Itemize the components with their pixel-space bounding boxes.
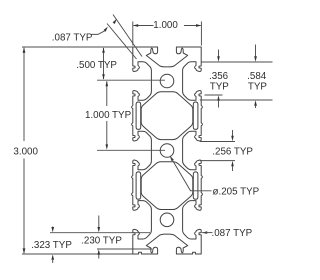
extension line top face (22, 46, 133, 48)
extension line bottom face (22, 253, 133, 255)
svg-text:.584: .584 (247, 71, 267, 82)
dim .584 TYP (255, 45, 257, 57)
leader dia .205 TYP (170, 156, 174, 161)
side web void R2 (193, 172, 198, 199)
svg-text:.356: .356 (209, 71, 229, 82)
leader .087 TYP (bottom-right) (202, 231, 207, 234)
dim .230 TYP (98, 216, 100, 228)
ref line lip inner (97, 248, 152, 250)
svg-text:TYP: TYP (210, 81, 230, 92)
side web void R1 (193, 102, 198, 129)
svg-text:.087 TYP: .087 TYP (52, 32, 93, 43)
svg-text:.230 TYP: .230 TYP (81, 235, 122, 246)
dim 3.000 (23, 48, 25, 141)
profile outline (132, 47, 203, 254)
dim .323 TYP (52, 227, 54, 229)
svg-text:1.000 TYP: 1.000 TYP (85, 110, 132, 121)
svg-text:3.000: 3.000 (13, 146, 38, 157)
svg-text:.500 TYP: .500 TYP (76, 60, 117, 71)
svg-text:ø.205 TYP: ø.205 TYP (213, 187, 260, 198)
centerline hole 2 (97, 149, 165, 151)
svg-text:.256 TYP: .256 TYP (212, 147, 253, 158)
ref line slot floor (50, 232, 150, 234)
centerline hole 1 (97, 79, 165, 81)
dim .256 TYP (200, 141, 235, 143)
center bore hole 1 (160, 74, 174, 88)
svg-text:TYP: TYP (248, 81, 268, 92)
dim .356 TYP (201, 61, 272, 63)
side web void L1 (136, 102, 141, 129)
octagonal core void upper (141, 92, 193, 140)
dim 1.000 TYP vertical (106, 81, 108, 106)
dim .500 TYP (103, 48, 105, 79)
center bore hole 3 (160, 213, 174, 227)
center bore hole 2 (160, 144, 174, 158)
dim 1.000 width (132, 22, 134, 46)
svg-text:1.000: 1.000 (153, 20, 178, 31)
octagonal core void lower (141, 162, 193, 210)
dim .087 TYP wall (top-left) (107, 24, 137, 60)
svg-text:.087 TYP: .087 TYP (212, 228, 253, 239)
svg-text:.323 TYP: .323 TYP (31, 240, 72, 251)
side web void L2 (136, 172, 141, 199)
